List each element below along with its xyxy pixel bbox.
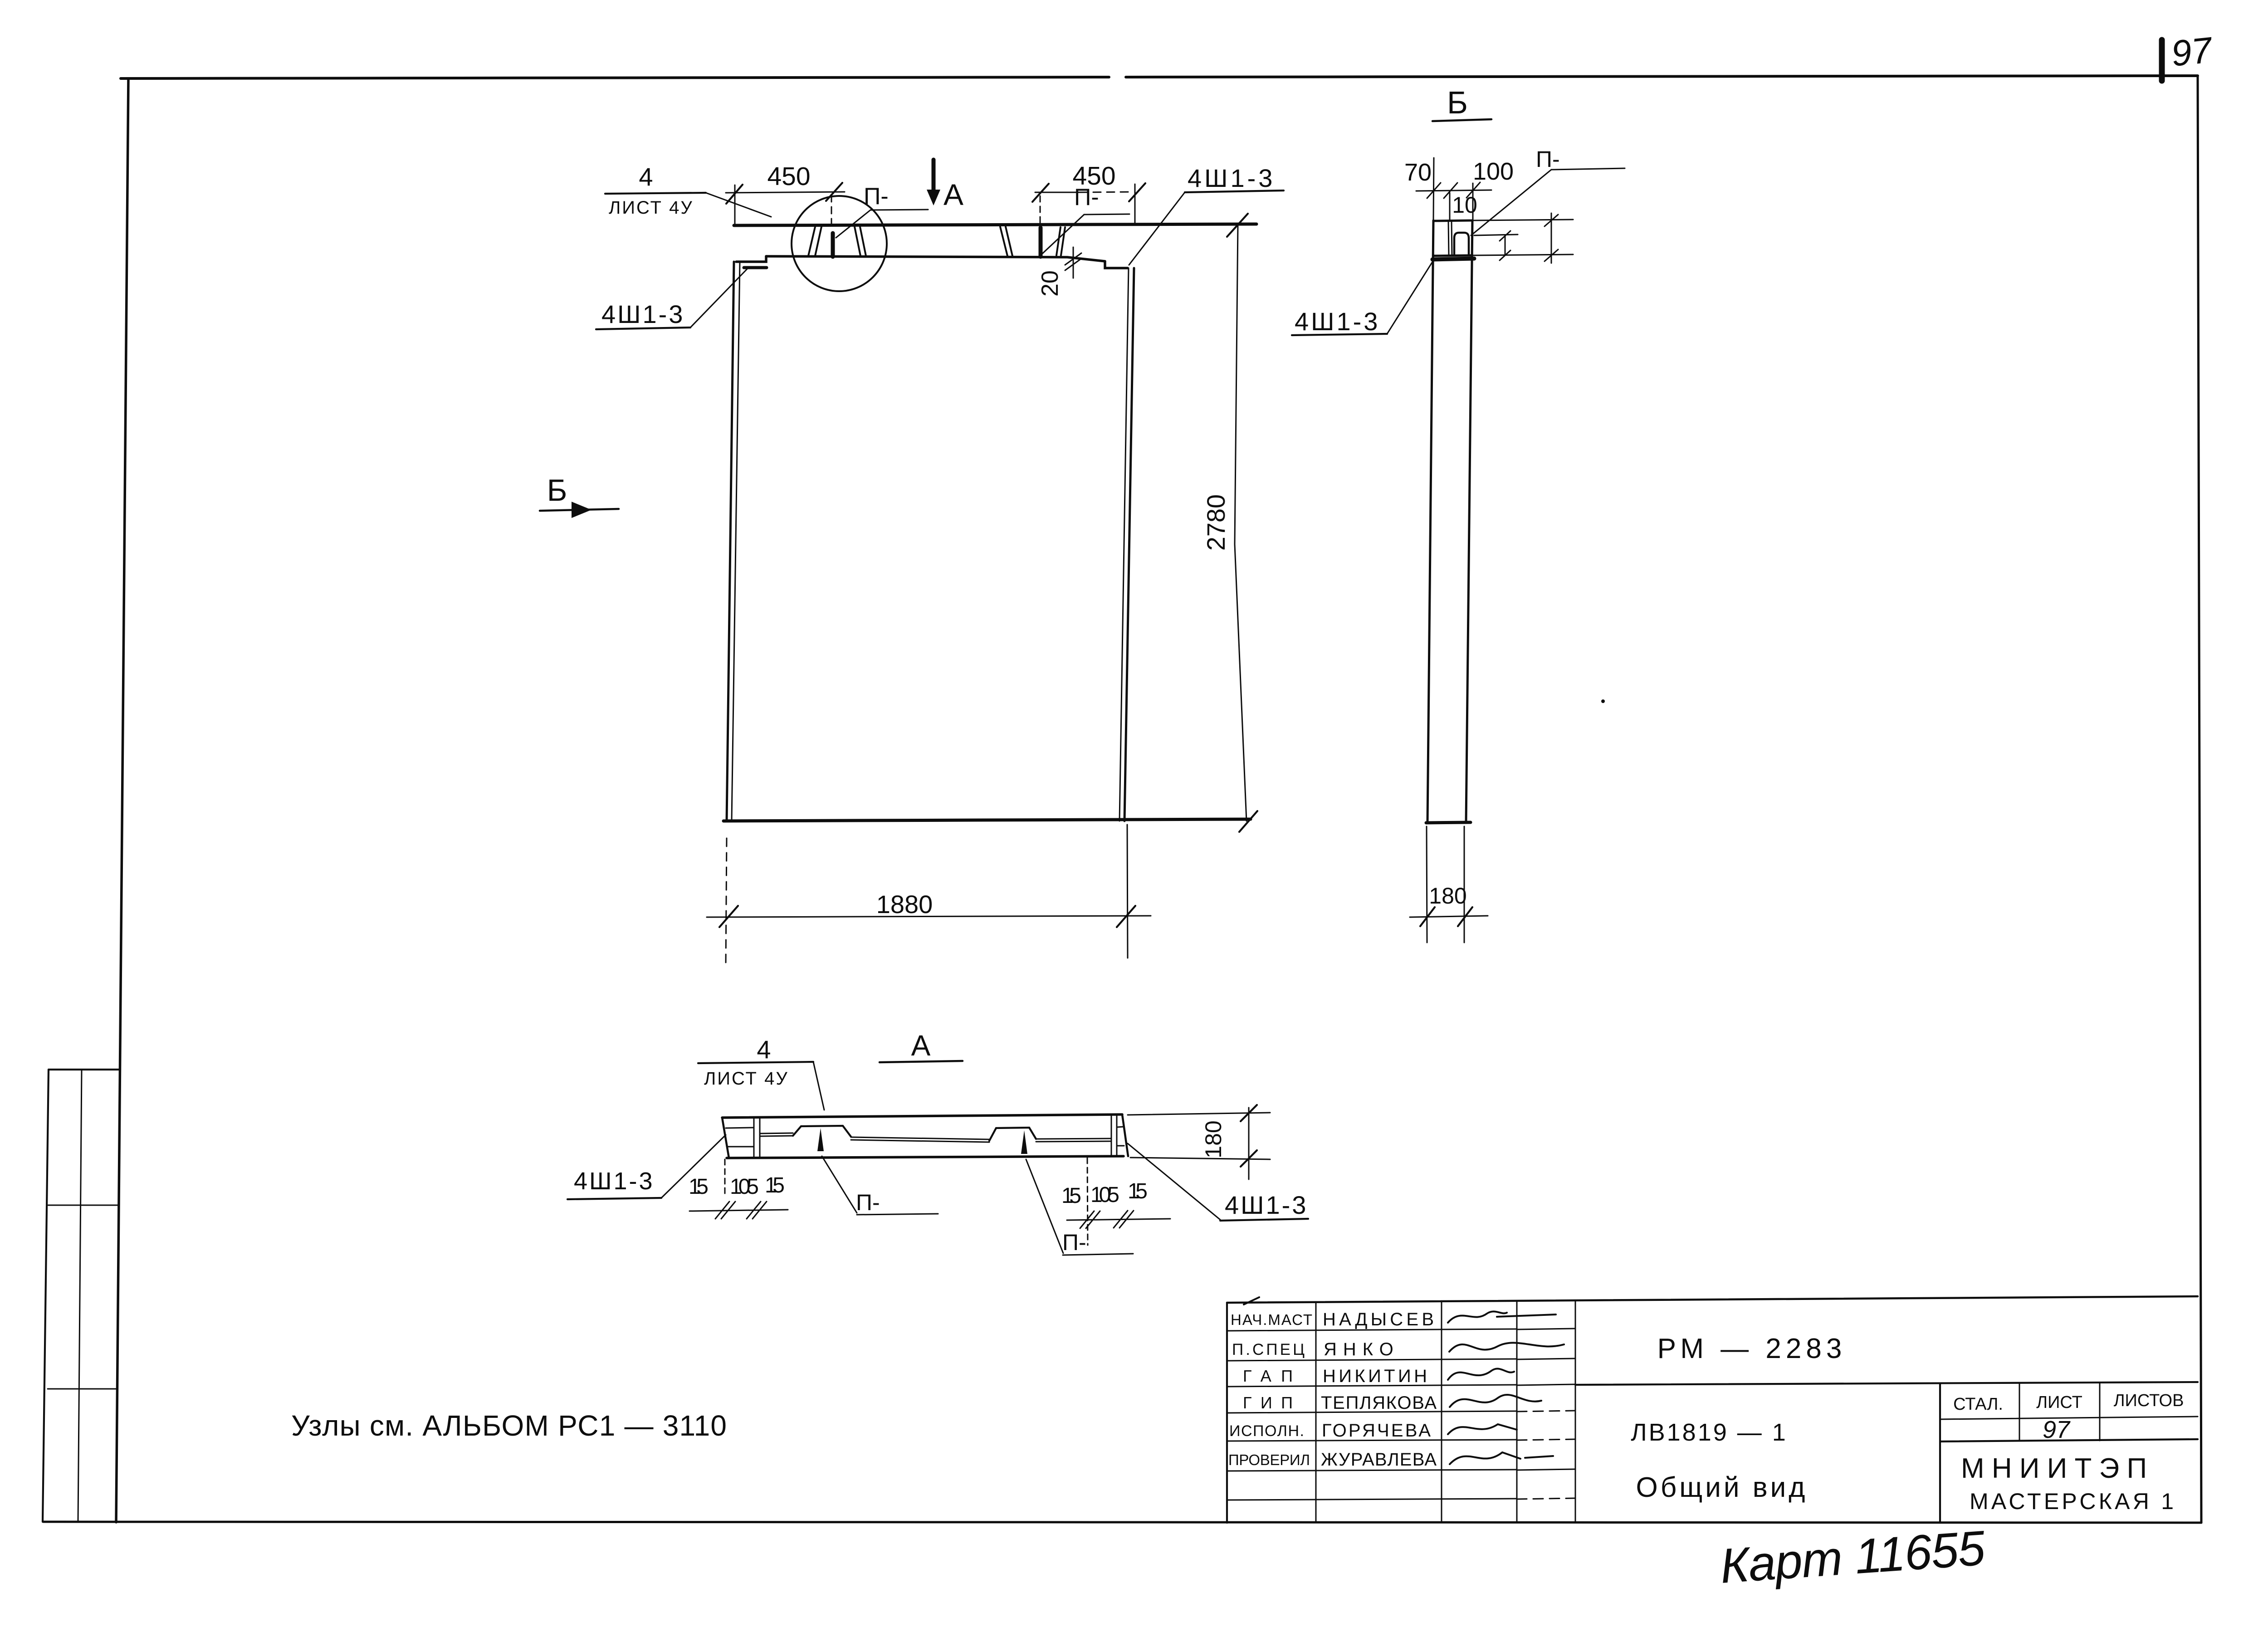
svg-text:СТАЛ.: СТАЛ. [1953, 1395, 2003, 1414]
svg-text:Общий вид: Общий вид [1636, 1472, 1808, 1503]
svg-text:ГИП: ГИП [1243, 1393, 1293, 1412]
side view B: dimension 180 tick slashes [1420, 907, 1472, 926]
label 4Sh1-3 (left) leader [690, 269, 748, 327]
side view B: P-hook profile [1454, 233, 1469, 254]
side view B: left edge [1427, 220, 1433, 822]
title block: signature row 2 [1449, 1343, 1564, 1352]
dovetail key 2: right side double lines [1056, 227, 1065, 255]
section A: top edge [722, 1114, 1122, 1118]
svg-text:П-: П- [1062, 1230, 1086, 1255]
section A: label P-2 underline [1063, 1254, 1133, 1255]
front view: right edge outer line [1124, 268, 1134, 821]
section A: label 4 leader [813, 1062, 824, 1110]
side view B: flange thickness dim arrows [1545, 215, 1558, 261]
dovetail key 1: left side double lines [808, 227, 821, 256]
section A: label 4Sh1-3 right underline [1220, 1219, 1308, 1221]
svg-text:П-: П- [1074, 184, 1099, 210]
side view B: label P- leader [1471, 170, 1551, 235]
svg-text:НИКИТИН: НИКИТИН [1323, 1366, 1427, 1386]
dovetail key 2: anchor plate thick mark [1039, 228, 1043, 257]
dimension 450 left: tick slashes [726, 183, 842, 204]
dimension 450 right: line part dashed [1080, 192, 1133, 192]
side view B: right edge [1466, 220, 1472, 822]
svg-text:180: 180 [1201, 1120, 1226, 1158]
section A: right end edge [1122, 1114, 1128, 1156]
svg-text:ЛИСТОВ: ЛИСТОВ [2114, 1391, 2184, 1410]
svg-text:ПРОВЕРИЛ: ПРОВЕРИЛ [1228, 1451, 1310, 1468]
section A: right key block inner verticals [1111, 1115, 1117, 1156]
title block: signature row 5 [1448, 1424, 1517, 1434]
front view: left edge outer line [727, 262, 734, 821]
title block: stamp sub-table left rule [1939, 1383, 1941, 1523]
section A: anchor plate arrow 1 [817, 1128, 824, 1151]
label 4Sh1-3 (left) underline [596, 327, 690, 329]
dimension 1880: line [707, 916, 1151, 917]
svg-text:П-: П- [1536, 147, 1560, 172]
left margin stamp: middle vertical [78, 1070, 82, 1522]
dimension 2780: tick slashes [1227, 214, 1257, 832]
title block: stamp sub-table second rule [1940, 1439, 2198, 1441]
section marker B (left): line [540, 509, 619, 511]
front view: panel top edge (extended to height dimension line) [734, 224, 1256, 225]
side view B: top edge thin extension right [1472, 220, 1573, 220]
left margin stamp: left vertical [43, 1070, 49, 1522]
section A: key 1 trapezoid [793, 1126, 851, 1137]
svg-text:97: 97 [2169, 29, 2214, 74]
side view B: anchor shoe plate thick mark [1432, 259, 1474, 259]
label 4 / sheet 4U (top left): leader [706, 193, 771, 217]
label 4Sh1-3 (top right) leader [1129, 192, 1185, 265]
label P- (key 1) leader [836, 210, 870, 238]
svg-text:1880: 1880 [876, 890, 933, 919]
svg-text:ЯНКО: ЯНКО [1324, 1339, 1400, 1359]
svg-text:4Ш1-3: 4Ш1-3 [1188, 164, 1275, 192]
section A: left dims double slashes [715, 1202, 767, 1219]
section A: right dims double slashes [1080, 1211, 1134, 1228]
dovetail key 2: left side double lines [1000, 227, 1012, 256]
section A: left dims dashed extension [724, 1159, 726, 1197]
svg-text:НАДЫСЕВ: НАДЫСЕВ [1323, 1309, 1434, 1329]
svg-text:Карт 11655: Карт 11655 [1718, 1520, 1987, 1593]
side view B: dimension 180 line [1410, 916, 1488, 917]
section A: label P-1 underline [857, 1214, 938, 1215]
title block: signature row 6 [1450, 1452, 1553, 1464]
section A: right key block horizontals [1117, 1127, 1124, 1146]
dimension 2780: line [1235, 225, 1246, 821]
front view: left anchor plate 4Sh1-3 [744, 266, 767, 269]
svg-text:100: 100 [1473, 158, 1514, 185]
label P- (key 2) leader [1042, 215, 1084, 254]
section A: left key block inner verticals [754, 1117, 760, 1158]
section A: label P-2 leader [1026, 1159, 1063, 1253]
svg-text:МНИИТЭП: МНИИТЭП [1961, 1453, 2147, 1484]
dovetail key 1: right side double lines [855, 227, 866, 256]
stray ink dot [1601, 699, 1605, 703]
side view B: hook height dim vertical with arrows [1500, 231, 1510, 260]
svg-text:15: 15 [689, 1175, 709, 1199]
section A: dimension 180 vertical [1248, 1108, 1250, 1179]
svg-text:10: 10 [1452, 192, 1477, 218]
side view B: extension above left edge [1433, 158, 1434, 220]
section A: channel left double line [760, 1133, 793, 1136]
dimension 450 right: line part solid [1035, 192, 1080, 193]
title block: stamp sub-table header rule [1940, 1417, 2198, 1419]
svg-text:П-: П- [856, 1190, 880, 1215]
detail callout circle [792, 196, 887, 291]
title block: top rule [1227, 1296, 2198, 1303]
title block: col4 row segments dashed [1517, 1411, 1575, 1499]
left margin stamp: divider 1 [48, 1205, 119, 1206]
side view B: header underline [1432, 119, 1491, 121]
section A: label P-1 leader [822, 1156, 857, 1213]
svg-text:15: 15 [1128, 1179, 1148, 1203]
section A: key 2 trapezoid [989, 1128, 1036, 1141]
title block: small arrow on top rule [1244, 1297, 1259, 1305]
side view B: bottom edge [1426, 822, 1471, 823]
side view B: inner face pair at flange [1448, 220, 1452, 255]
svg-text:15: 15 [1061, 1184, 1081, 1208]
sheet number tick mark [2159, 40, 2165, 81]
side view B: extensions below [1427, 826, 1464, 943]
dimension 1880: tick slashes [719, 906, 1135, 927]
title block: left rule [1226, 1303, 1228, 1523]
section arrow A: shaft [932, 160, 936, 192]
side view B: flange underside [1433, 255, 1472, 256]
svg-text:450: 450 [767, 162, 810, 191]
left margin stamp: top rule [49, 1069, 120, 1070]
dimension 450 left: dashed extension to key centre [831, 195, 832, 225]
svg-text:НАЧ.МАСТ: НАЧ.МАСТ [1231, 1311, 1312, 1328]
title block: signature row 3 [1448, 1369, 1514, 1380]
front view: right edge inner line [1119, 268, 1129, 821]
side view B: extension above right edge [1472, 183, 1474, 220]
svg-text:ЛИСТ 4У: ЛИСТ 4У [704, 1069, 789, 1089]
svg-text:П.СПЕЦ: П.СПЕЦ [1232, 1341, 1305, 1358]
svg-text:ГАП: ГАП [1243, 1367, 1293, 1385]
svg-text:20: 20 [1037, 270, 1063, 297]
label P- (key 1) underline [870, 210, 928, 210]
dimension 20: tick slashes [1065, 253, 1081, 270]
extension line above right edge [1134, 184, 1136, 225]
svg-text:Узлы см. АЛЬБОМ РС1 — 311: Узлы см. АЛЬБОМ РС1 — 3110 [291, 1409, 728, 1442]
extension line above left edge [734, 185, 736, 225]
dimension 1880: left dashed extension [726, 838, 727, 966]
side view B: top dimension line 70/10/100 [1416, 190, 1491, 191]
section A: left dims line [689, 1210, 788, 1211]
svg-text:70: 70 [1404, 159, 1432, 186]
svg-text:4: 4 [757, 1035, 771, 1064]
svg-text:2780: 2780 [1202, 494, 1230, 551]
section A: channel right double line [1036, 1138, 1111, 1142]
svg-text:4: 4 [639, 162, 653, 191]
side view B: label 4Sh1-3 leader [1387, 260, 1433, 334]
front view: left notch shelf [736, 256, 766, 262]
svg-text:РМ — 2283: РМ — 2283 [1657, 1333, 1847, 1364]
front view: left edge inner line [732, 262, 740, 821]
page border bottom [43, 1522, 2201, 1523]
section A: header underline [880, 1061, 963, 1062]
title block: col4 row segments solid [1517, 1329, 1575, 1470]
label 4Sh1-3 (top right) underline [1185, 191, 1284, 192]
svg-text:ЛИСТ: ЛИСТ [2036, 1393, 2082, 1412]
side view B: top dimension tick slashes [1427, 182, 1480, 198]
title block: row rules [1227, 1329, 1517, 1500]
svg-text:ИСПОЛН.: ИСПОЛН. [1229, 1422, 1304, 1440]
section A: label 4Sh1-3 left underline [567, 1198, 661, 1199]
front view: right notch step and shelf [1105, 261, 1128, 268]
section A: dimension 180 tick slashes [1241, 1105, 1257, 1167]
svg-text:Б: Б [547, 473, 567, 508]
front view: panel bottom edge (extended to dimension line) [723, 819, 1251, 821]
dovetail key 1: anchor plate thick mark [831, 233, 835, 257]
left margin stamp: divider 2 [48, 1388, 117, 1390]
section A: label 4Sh1-3 left leader [661, 1135, 726, 1198]
section A: right dims dashed extension [1087, 1158, 1088, 1245]
svg-text:97: 97 [2043, 1416, 2071, 1443]
svg-text:ЛВ1819 — 1: ЛВ1819 — 1 [1631, 1419, 1788, 1446]
section A: dimension 180 top extension [1128, 1113, 1270, 1115]
page border right [2198, 76, 2201, 1523]
svg-text:ЖУРАВЛЕВА: ЖУРАВЛЕВА [1321, 1450, 1437, 1470]
title block: signature row 1 [1448, 1311, 1556, 1323]
side view B: top edge [1433, 220, 1472, 221]
svg-text:А: А [911, 1029, 931, 1062]
svg-text:Б: Б [1447, 85, 1468, 120]
title block: column rules [1316, 1300, 1575, 1523]
side view B: label P- underline [1551, 168, 1625, 170]
section A: label 4Sh1-3 right leader [1128, 1143, 1220, 1220]
side view B: hook height dim line [1474, 235, 1518, 235]
svg-text:4Ш1-3: 4Ш1-3 [1295, 307, 1380, 336]
section A: left key block horizontals [726, 1128, 754, 1147]
section A: left end edge [722, 1118, 729, 1158]
dimension 20: extension vertical [1073, 247, 1074, 278]
side view B: label 4Sh1-3 underline [1292, 334, 1387, 335]
svg-text:П-: П- [864, 183, 889, 210]
section arrow A: head [927, 190, 940, 205]
title block: signature row 4 [1450, 1395, 1541, 1407]
title block: divider under PM-2283 [1575, 1382, 2198, 1385]
dimension 1880: right extension [1127, 825, 1128, 958]
label 4 / sheet 4U (top left): underline [605, 193, 706, 194]
svg-text:4Ш1-3: 4Ш1-3 [574, 1168, 655, 1195]
side view B: middle extension to dim line [1449, 193, 1451, 220]
side view B: flange thickness dim vertical [1551, 213, 1552, 263]
svg-text:4Ш1-3: 4Ш1-3 [601, 300, 684, 328]
label P- (key 2) underline [1084, 214, 1129, 215]
section A: bottom edge [727, 1156, 1124, 1158]
title block: stamp sub-table verticals [2019, 1383, 2100, 1441]
svg-text:180: 180 [1429, 883, 1466, 909]
svg-text:ТЕПЛЯКОВА: ТЕПЛЯКОВА [1321, 1393, 1437, 1413]
page border left [116, 78, 128, 1522]
dimension 450 left: line [726, 192, 845, 193]
svg-text:105: 105 [730, 1175, 759, 1199]
front view: flange underside [766, 256, 1105, 261]
dimension 450 right: dashed extension to key centre [1040, 196, 1041, 225]
section A: anchor plate arrow 2 [1021, 1130, 1027, 1154]
svg-text:ЛИСТ 4У: ЛИСТ 4У [609, 198, 694, 218]
page border top [121, 76, 2198, 78]
section A: label 4 / sheet 4U underline [698, 1062, 813, 1063]
svg-text:105: 105 [1090, 1183, 1119, 1207]
svg-text:ГОРЯЧЕВА: ГОРЯЧЕВА [1322, 1421, 1431, 1441]
svg-text:15: 15 [765, 1173, 785, 1197]
section A: right dims line [1067, 1219, 1170, 1220]
section A: dimension 180 bottom extension [1130, 1158, 1270, 1159]
dimension 450 right: tick slashes [1032, 183, 1145, 202]
section marker B (left): arrowhead [572, 502, 591, 518]
section A: channel middle double line [851, 1137, 989, 1142]
side view B: flange underside thin extension right [1472, 254, 1573, 255]
svg-text:А: А [943, 178, 963, 211]
svg-text:4Ш1-3: 4Ш1-3 [1225, 1191, 1308, 1219]
svg-text:МАСТЕРСКАЯ 1: МАСТЕРСКАЯ 1 [1970, 1489, 2174, 1514]
